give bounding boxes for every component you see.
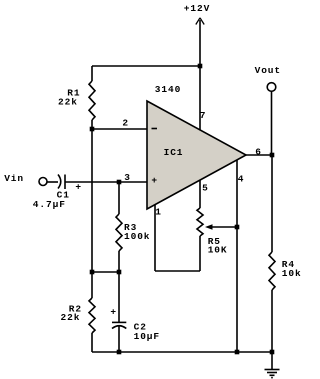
svg-text:10K: 10K: [208, 245, 228, 256]
svg-text:22k: 22k: [58, 97, 78, 108]
junction R4 / ground rail: [270, 350, 275, 355]
svg-text:+: +: [75, 182, 82, 193]
junction wiper / pin 4: [235, 225, 240, 230]
resistor R1 22k: [58, 66, 95, 129]
wire pin 1: [155, 205, 200, 271]
wire pin 6 output: [246, 147, 272, 158]
junction C2 / ground rail: [117, 350, 122, 355]
wire C1 to pin 3: [65, 181, 147, 183]
wire pin 7: [200, 66, 207, 130]
op-amp IC1: [147, 101, 246, 209]
potentiometer R5 10K: [197, 208, 237, 271]
svg-text:4.7µF: 4.7µF: [33, 199, 66, 210]
wire +12V rail top: [92, 65, 200, 67]
resistor R3 100k: [116, 182, 150, 272]
svg-text:22k: 22k: [61, 312, 81, 323]
terminal Vin: [4, 173, 47, 186]
terminal Vout: [255, 65, 281, 155]
junction output node: [270, 153, 275, 158]
svg-text:+: +: [151, 175, 158, 186]
junction R3 top / pin 3 node: [117, 172, 131, 184]
svg-text:Vout: Vout: [255, 65, 281, 76]
resistor R4 10k: [269, 155, 302, 352]
svg-text:4: 4: [238, 174, 245, 185]
wire Vin to C1: [47, 181, 58, 183]
junction R1 bottom / pin 2 node: [90, 127, 95, 132]
wire left bias rail: [91, 129, 93, 298]
wire pin 5: [200, 180, 209, 208]
capacitor C2 10uF: [110, 272, 160, 352]
svg-text:3140: 3140: [155, 84, 181, 95]
svg-text:1: 1: [155, 207, 162, 218]
resistor R2 22k: [61, 298, 96, 352]
svg-text:10µF: 10µF: [134, 331, 160, 342]
svg-text:2: 2: [122, 118, 129, 129]
junction left rail / connector: [90, 270, 95, 275]
svg-text:3: 3: [124, 172, 131, 183]
svg-text:Vin: Vin: [4, 173, 24, 184]
svg-text:100k: 100k: [124, 231, 150, 242]
junction R3 bottom / C2 top: [117, 270, 122, 275]
wire pin 4: [237, 160, 244, 352]
svg-text:IC1: IC1: [164, 147, 184, 158]
wire ground rail bottom: [92, 351, 272, 353]
svg-text:5: 5: [202, 183, 209, 194]
junction pin 4 / ground rail: [235, 350, 240, 355]
inverting input mark: [152, 128, 158, 130]
svg-text:7: 7: [200, 110, 207, 121]
junction +12V / pin 7: [198, 64, 203, 69]
svg-text:+: +: [110, 306, 117, 317]
svg-text:+12V: +12V: [184, 3, 210, 14]
power +12V: [184, 3, 210, 66]
ground: [265, 352, 280, 378]
wire pin 2: [92, 118, 147, 130]
capacitor C1 4.7uF: [33, 175, 82, 211]
svg-text:6: 6: [255, 147, 262, 158]
svg-text:10k: 10k: [282, 268, 302, 279]
wire R3 bottom connector: [92, 271, 119, 273]
